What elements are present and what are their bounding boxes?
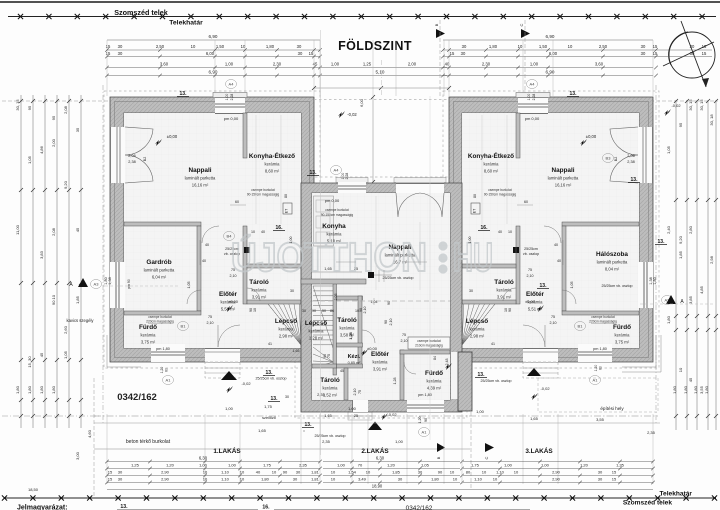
svg-text:25/25cm vb. oszlop: 25/25cm vb. oszlop [602, 284, 633, 288]
svg-text:10: 10 [504, 308, 508, 312]
section marker B top [436, 29, 445, 38]
left boundary dashed vertical [102, 85, 104, 425]
svg-text:kerámia: kerámia [615, 333, 631, 338]
svg-text:csempe burkolat: csempe burkolat [417, 339, 441, 343]
svg-text:45: 45 [688, 377, 693, 382]
svg-text:Előtér: Előtér [219, 291, 238, 298]
svg-text:A4: A4 [334, 168, 340, 173]
svg-text:45: 45 [340, 369, 344, 373]
partition bath centre [400, 350, 404, 400]
svg-text:16,16 m²: 16,16 m² [192, 183, 209, 188]
svg-text:1,20: 1,20 [160, 367, 164, 374]
svg-text:8,04 m²: 8,04 m² [605, 267, 620, 272]
svg-text:2,10: 2,10 [527, 274, 534, 278]
unit2 southeast bump-out wall [451, 352, 458, 399]
courtyard dimension vertical [372, 97, 374, 182]
svg-text:-0,02: -0,02 [347, 112, 357, 117]
svg-text:30: 30 [118, 470, 123, 475]
svg-text:2,10: 2,10 [353, 389, 357, 396]
svg-text:15: 15 [702, 51, 707, 56]
svg-text:kerámia: kerámia [323, 386, 339, 391]
svg-text:90: 90 [359, 308, 363, 312]
courtyard top dim line [314, 87, 449, 89]
svg-text:1,00: 1,00 [331, 62, 340, 67]
west window gardrob [110, 262, 125, 308]
svg-text:Szomszéd telek: Szomszéd telek [623, 500, 672, 507]
svg-text:2,98 m²: 2,98 m² [279, 334, 294, 339]
svg-text:60: 60 [165, 368, 169, 372]
svg-text:2.LAKÁS: 2.LAKÁS [361, 446, 389, 455]
svg-text:A4: A4 [229, 82, 235, 87]
svg-text:laminált parketta: laminált parketta [597, 260, 628, 265]
svg-text:16.: 16. [276, 225, 284, 231]
svg-text:50: 50 [322, 309, 326, 313]
svg-text:kavics szegély: kavics szegély [67, 318, 95, 323]
watermark UJOTTHON.HU [231, 234, 493, 280]
svg-text:25/25cm vb. oszlop: 25/25cm vb. oszlop [481, 379, 512, 383]
svg-text:pm 0,00: pm 0,00 [325, 198, 340, 203]
interior door arcs unit1 [202, 226, 219, 243]
svg-text:2,98 m²: 2,98 m² [470, 334, 485, 339]
svg-text:10: 10 [450, 470, 455, 475]
svg-text:Nappali: Nappali [188, 167, 211, 174]
svg-text:40: 40 [256, 470, 261, 475]
svg-text:1,65: 1,65 [324, 414, 331, 418]
svg-text:2,40: 2,40 [666, 225, 671, 234]
svg-text:45: 45 [39, 352, 44, 357]
svg-text:9,20: 9,20 [63, 180, 68, 189]
svg-text:A1: A1 [166, 378, 172, 383]
svg-text:2,10: 2,10 [550, 321, 557, 325]
column square [244, 247, 250, 253]
svg-text:75: 75 [327, 354, 331, 358]
svg-text:B1: B1 [181, 324, 187, 329]
svg-text:-0,02: -0,02 [671, 103, 681, 108]
svg-text:30: 30 [462, 44, 467, 49]
svg-text:4,39 m²: 4,39 m² [427, 386, 442, 391]
svg-text:1,00: 1,00 [225, 62, 234, 67]
svg-text:1,20: 1,20 [418, 417, 422, 424]
svg-text:A1: A1 [593, 378, 599, 383]
svg-text:1,80: 1,80 [653, 277, 657, 284]
svg-text:szellőző: szellőző [262, 416, 276, 420]
svg-text:Tároló: Tároló [337, 317, 357, 324]
right dimension column verticals [675, 100, 677, 430]
south window bathroom [578, 344, 612, 362]
svg-text:40: 40 [261, 230, 265, 234]
roof overhang dashed outline left house [104, 91, 320, 368]
south window bath centre [407, 400, 444, 412]
building site dash-dot line [94, 415, 658, 417]
svg-text:1,00: 1,00 [541, 463, 550, 468]
svg-text:2,10: 2,10 [389, 319, 393, 326]
svg-text:Hálószoba: Hálószoba [596, 251, 628, 258]
roof overhang dashed outline centre unit [295, 177, 467, 418]
svg-text:13.: 13. [266, 370, 274, 376]
svg-text:4,85: 4,85 [699, 285, 704, 294]
partition storage top [462, 264, 516, 268]
svg-text:80: 80 [473, 194, 477, 198]
svg-text:2,06: 2,06 [627, 154, 634, 158]
window ref circles [226, 79, 237, 88]
svg-text:60: 60 [235, 200, 239, 204]
svg-text:1,10: 1,10 [496, 470, 505, 475]
svg-text:Előtér: Előtér [371, 351, 390, 358]
svg-text:60: 60 [599, 366, 603, 370]
svg-text:1,10: 1,10 [221, 470, 230, 475]
entry porch left dashed [205, 362, 240, 378]
svg-text:6,04 m²: 6,04 m² [152, 275, 167, 280]
svg-text:3,75 m²: 3,75 m² [141, 340, 156, 345]
right column ticks [674, 99, 678, 103]
svg-text:vb. oszlop: vb. oszlop [523, 252, 539, 256]
svg-text:csempe burkolat: csempe burkolat [325, 208, 349, 212]
svg-text:10: 10 [366, 470, 371, 475]
insulation inner line [454, 102, 649, 358]
svg-text:15: 15 [612, 477, 617, 482]
svg-text:10: 10 [240, 470, 245, 475]
left dimension column verticals [20, 95, 22, 428]
svg-text:30: 30 [398, 477, 403, 482]
svg-text:90: 90 [387, 301, 391, 305]
svg-text:Fürdő: Fürdő [139, 324, 157, 331]
svg-text:2,10: 2,10 [230, 274, 237, 278]
svg-text:1,00: 1,00 [228, 463, 237, 468]
svg-text:1,80: 1,80 [261, 477, 270, 482]
stair wall [333, 283, 337, 375]
svg-text:1,05: 1,05 [187, 282, 191, 289]
svg-text:2,38: 2,38 [128, 160, 135, 164]
svg-text:40: 40 [554, 243, 558, 247]
svg-text:2,10: 2,10 [401, 339, 408, 343]
svg-text:220cm magasságig: 220cm magasságig [589, 320, 617, 324]
svg-text:B2: B2 [143, 157, 147, 161]
svg-text:1,10: 1,10 [221, 477, 230, 482]
svg-text:0342/162: 0342/162 [117, 392, 157, 403]
svg-text:8,60 m²: 8,60 m² [265, 169, 280, 174]
svg-text:95: 95 [27, 105, 32, 110]
svg-text:Tároló: Tároló [320, 377, 340, 384]
svg-text:1,80: 1,80 [693, 385, 698, 394]
svg-text:84: 84 [433, 356, 437, 360]
svg-text:15: 15 [612, 470, 617, 475]
terrace lines left [94, 422, 660, 424]
svg-text:Telekhatár: Telekhatár [169, 20, 203, 27]
svg-text:10: 10 [251, 230, 255, 234]
left dashed reference line top [2, 100, 110, 102]
svg-text:90: 90 [508, 308, 512, 312]
section marker C bottom [485, 443, 494, 452]
west french door [110, 127, 125, 183]
svg-text:3,75 m²: 3,75 m² [615, 340, 630, 345]
svg-text:4,60: 4,60 [87, 429, 92, 438]
svg-text:8,60 m²: 8,60 m² [484, 169, 499, 174]
north window [215, 96, 245, 114]
svg-text:75: 75 [551, 315, 555, 319]
stair treads [268, 304, 301, 345]
svg-text:±0,00: ±0,00 [228, 299, 239, 304]
svg-text:1,65: 1,65 [258, 428, 267, 433]
svg-text:30: 30 [290, 289, 294, 293]
house interior floor [462, 113, 639, 348]
svg-text:86: 86 [330, 309, 334, 313]
svg-text:13.: 13. [658, 239, 666, 245]
svg-text:1,00: 1,00 [348, 406, 357, 411]
svg-text:csempe burkolat: csempe burkolat [148, 315, 172, 319]
svg-text:1,05: 1,05 [27, 155, 32, 164]
partition hall/storage [243, 226, 247, 304]
svg-text:0,85 m²: 0,85 m² [348, 361, 362, 365]
svg-text:10: 10 [514, 470, 519, 475]
svg-text:3.LAKÁS: 3.LAKÁS [525, 446, 553, 455]
north arrow compass [663, 21, 715, 87]
svg-text:1,50: 1,50 [216, 44, 225, 49]
svg-text:2,00: 2,00 [51, 138, 56, 147]
svg-text:10: 10 [253, 308, 257, 312]
svg-text:-0,02: -0,02 [540, 386, 550, 391]
partition living/gardrob [124, 222, 201, 226]
left dashed reference line bottom [2, 415, 100, 417]
svg-text:2,50: 2,50 [156, 44, 165, 49]
svg-text:Konyha: Konyha [322, 223, 346, 230]
svg-text:csempe burkolat: csempe burkolat [591, 315, 615, 319]
svg-text:laminált parketta: laminált parketta [548, 176, 579, 181]
svg-text:3,55: 3,55 [699, 385, 704, 394]
svg-text:2,98: 2,98 [709, 255, 714, 264]
long reference verticals [320, 30, 322, 455]
svg-text:HU: HU [453, 234, 493, 280]
svg-text:90: 90 [323, 354, 327, 358]
svg-text:1,80: 1,80 [683, 385, 688, 394]
svg-text:40: 40 [202, 259, 206, 263]
svg-text:1,00: 1,00 [337, 463, 346, 468]
svg-text:1,00: 1,00 [225, 94, 229, 101]
svg-text:1,54: 1,54 [348, 470, 357, 475]
unit3 corner terrace steps [622, 335, 656, 367]
svg-text:Fürdő: Fürdő [613, 324, 631, 331]
svg-text:1,05: 1,05 [421, 463, 430, 468]
svg-text:3,83: 3,83 [39, 250, 44, 259]
svg-text:1,80: 1,80 [266, 44, 275, 49]
svg-text:2,35: 2,35 [299, 463, 308, 468]
svg-text:3,60: 3,60 [595, 62, 604, 67]
svg-text:90: 90 [424, 418, 428, 422]
svg-text:1,05: 1,05 [63, 350, 68, 359]
house interior floor [124, 113, 301, 348]
svg-text:Lépcső: Lépcső [305, 320, 327, 327]
svg-text:1,00: 1,00 [530, 62, 539, 67]
svg-text:1,05: 1,05 [570, 282, 574, 289]
svg-text:30: 30 [302, 309, 306, 313]
svg-text:25: 25 [354, 414, 358, 418]
marker A right [666, 295, 676, 304]
svg-text:1,38: 1,38 [649, 277, 653, 284]
left column ticks [19, 99, 23, 103]
section line C dashed [524, 20, 526, 96]
svg-text:Tároló: Tároló [494, 279, 514, 286]
partition gardrob east [562, 226, 566, 311]
svg-text:1,00: 1,00 [504, 463, 513, 468]
svg-text:30: 30 [690, 44, 695, 49]
svg-text:Kézi.: Kézi. [348, 354, 361, 360]
svg-text:1,80: 1,80 [666, 315, 671, 324]
svg-text:40: 40 [498, 230, 502, 234]
svg-text:2,28: 2,28 [532, 94, 536, 101]
svg-text:30, 15: 30, 15 [699, 99, 704, 111]
svg-text:16.: 16. [481, 225, 489, 231]
svg-text:30: 30 [641, 51, 646, 56]
svg-text:10: 10 [331, 470, 336, 475]
svg-text:1,28 m²: 1,28 m² [309, 336, 324, 341]
left house exterior walls [110, 97, 314, 362]
svg-text:15: 15 [309, 51, 314, 56]
svg-text:1,10: 1,10 [474, 477, 483, 482]
svg-text:1,80: 1,80 [431, 477, 440, 482]
svg-text:2,00: 2,00 [408, 62, 417, 67]
svg-text:2,10: 2,10 [363, 307, 367, 314]
svg-text:10: 10 [518, 44, 523, 49]
svg-text:1,20: 1,20 [166, 463, 175, 468]
svg-text:kerámia: kerámia [279, 327, 295, 332]
konyha dim line [312, 271, 362, 273]
svg-text:30: 30 [469, 289, 473, 293]
svg-text:13.: 13. [180, 91, 188, 97]
svg-text:45: 45 [75, 227, 80, 232]
section marker C top [521, 29, 530, 38]
svg-text:1,25: 1,25 [131, 463, 140, 468]
svg-text:3,91 m²: 3,91 m² [373, 367, 388, 372]
svg-text:10: 10 [482, 470, 487, 475]
svg-text:90-150cm magasságig: 90-150cm magasságig [484, 193, 516, 197]
svg-text:kerámia: kerámia [427, 379, 443, 384]
centre stairs treads [313, 285, 333, 287]
top dimension chain lines right house [443, 39, 653, 41]
partition living/gardrob [562, 222, 639, 226]
svg-text:csempe burkolat: csempe burkolat [251, 188, 275, 192]
svg-text:90: 90 [312, 309, 316, 313]
svg-text:11,00: 11,00 [15, 224, 20, 234]
svg-text:10: 10 [678, 367, 683, 372]
svg-text:2,05: 2,05 [334, 294, 338, 301]
svg-text:1,85: 1,85 [75, 295, 80, 304]
west window gardrob [638, 262, 653, 308]
svg-text:25/25cm vb. oszlop: 25/25cm vb. oszlop [256, 377, 287, 381]
svg-text:pm 1,80: pm 1,80 [156, 347, 170, 351]
svg-text:1,00: 1,00 [395, 439, 404, 444]
svg-text:-0,02: -0,02 [241, 381, 251, 386]
svg-text:95: 95 [51, 115, 56, 120]
insulation inner line [115, 102, 310, 358]
reference dashed stubs [105, 285, 180, 287]
svg-text:16.: 16. [262, 505, 270, 510]
svg-text:90-150cm magasságig: 90-150cm magasságig [321, 213, 353, 217]
terrace lines right [538, 378, 658, 412]
courtyard window top [338, 182, 366, 193]
courtyard overhang dashed line [314, 99, 449, 101]
svg-text:Előtér: Előtér [526, 291, 545, 298]
csempe burkolat box centre [408, 337, 450, 349]
svg-text:1,80: 1,80 [39, 385, 44, 394]
svg-text:30: 30 [598, 477, 603, 482]
svg-text:75: 75 [528, 268, 532, 272]
svg-text:10: 10 [568, 44, 573, 49]
svg-text:30: 30 [296, 470, 301, 475]
svg-text:2,90: 2,90 [161, 477, 170, 482]
svg-text:0342/162: 0342/162 [406, 505, 433, 510]
svg-text:90: 90 [283, 470, 288, 475]
svg-text:±0,00: ±0,00 [586, 134, 597, 139]
svg-text:18,90: 18,90 [372, 484, 383, 489]
svg-text:1,05: 1,05 [666, 145, 671, 154]
svg-text:2,90: 2,90 [552, 470, 561, 475]
svg-text:6,00: 6,00 [549, 51, 558, 56]
svg-text:2,28: 2,28 [230, 94, 234, 101]
right boundary dashed vertical [655, 85, 657, 425]
kitchen stub wall [516, 113, 520, 158]
svg-text:1,80: 1,80 [15, 385, 20, 394]
svg-text:70: 70 [358, 463, 363, 468]
svg-text:±0,00: ±0,00 [367, 346, 378, 351]
partition storage/stair [247, 300, 301, 304]
svg-text:75: 75 [402, 333, 406, 337]
courtyard door sill [394, 178, 446, 183]
svg-text:30: 30 [118, 477, 123, 482]
svg-text:építési hely: építési hely [600, 406, 624, 411]
interior leader lines [230, 204, 246, 206]
south window bathroom [151, 344, 185, 362]
svg-text:kerámia: kerámia [484, 162, 500, 167]
svg-text:1,00: 1,00 [468, 237, 472, 244]
interior door arcs unit2 [404, 362, 416, 374]
svg-text:±0,00: ±0,00 [525, 299, 536, 304]
svg-text:40: 40 [557, 259, 561, 263]
svg-text:2,90: 2,90 [552, 477, 561, 482]
partition storage centre right [358, 296, 362, 366]
south door entrance [205, 348, 240, 362]
svg-text:30, 15: 30, 15 [688, 99, 693, 111]
svg-text:1,80: 1,80 [672, 385, 677, 394]
svg-text:18,50: 18,50 [28, 487, 39, 492]
svg-text:25/25cm vb. oszlop: 25/25cm vb. oszlop [315, 434, 346, 438]
svg-text:2,80: 2,80 [688, 225, 693, 234]
partition gardrob/bath [562, 311, 639, 315]
right house exterior walls [449, 97, 653, 362]
svg-text:2,08: 2,08 [63, 105, 68, 114]
svg-text:30: 30 [298, 51, 303, 56]
svg-text:1,35: 1,35 [616, 463, 625, 468]
svg-text:B: B [436, 456, 441, 459]
svg-text:1,38: 1,38 [108, 277, 112, 284]
marker A left [78, 278, 88, 287]
svg-text:2,30: 2,30 [273, 62, 282, 67]
top dimension extension verticals [106, 40, 108, 96]
svg-text:2,08: 2,08 [51, 227, 56, 236]
svg-text:90-150cm magasságig: 90-150cm magasságig [247, 193, 279, 197]
column square [513, 247, 519, 253]
svg-text:1,85: 1,85 [678, 250, 683, 259]
svg-text:5,10: 5,10 [376, 70, 385, 75]
partition gardrob east [197, 226, 201, 311]
svg-text:1,80: 1,80 [704, 385, 709, 394]
partition storage2 centre [312, 364, 337, 368]
svg-text:10: 10 [493, 477, 498, 482]
svg-text:16,16 m²: 16,16 m² [555, 183, 572, 188]
svg-text:30: 30 [293, 477, 298, 482]
svg-text:1,65: 1,65 [293, 349, 300, 353]
interior door arcs unit3 [544, 226, 561, 243]
right dashed reference line [650, 100, 718, 102]
entry marker triangle right [527, 368, 541, 376]
